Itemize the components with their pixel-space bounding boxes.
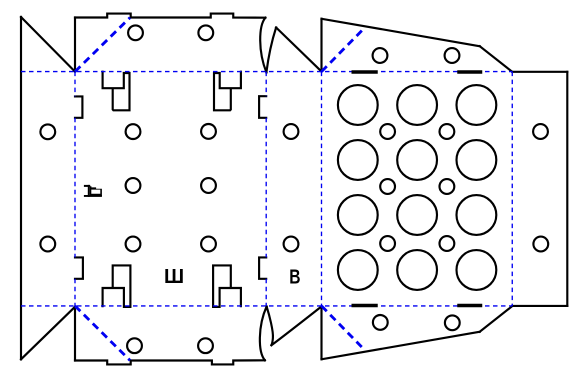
left flap outer edge [20,17,22,359]
bottom flap left edge [74,307,76,361]
right strip bottom edge [512,305,567,307]
bold fold diagonal top-left [75,18,130,72]
right panel left fold line [321,72,323,306]
crease tick top left [352,70,378,74]
top-right flap hole 2 [445,48,460,63]
top sliver cut line [266,28,276,73]
left flap top diagonal cut [21,17,75,72]
bottom-right flap corner cut [480,306,513,332]
bottom flap right curved cut [260,307,267,361]
bottom fold line [21,305,512,307]
big hole r2c3 [457,140,497,180]
top flap top edge with two tabs [75,14,265,18]
small hole r1c1 [380,124,395,139]
right edge notch bottom [259,257,266,278]
top flap hole 1 [128,25,143,40]
left flap bottom diagonal cut [21,307,75,360]
top-right flap hole 1 [373,48,388,63]
bottom sliver cut line [267,307,273,346]
left panel left fold line [74,72,76,306]
top-right flap left edge [320,19,322,72]
bold fold diagonal top-right [322,28,365,71]
bottom-right flap hole 1 [373,315,388,330]
big hole r2c2 [397,140,437,180]
top slot B of main panel [214,72,241,111]
top-right flap corner cut [480,46,513,72]
main panel hole r1c1 [126,124,141,139]
big hole r4c3 [457,250,497,290]
main panel hole r1c2 [201,124,216,139]
small hole r1c2 [440,124,455,139]
left flap hole 1 [40,124,55,139]
small hole r2c1 [380,179,395,194]
right edge notch top [259,96,266,118]
right strip top edge [512,71,567,73]
big hole r4c1 [338,250,378,290]
bottom flap hole 2 [198,338,213,353]
top cut from peak to right panel corner [276,28,321,72]
bottom-right flap hole 2 [445,315,460,330]
left edge notch top [75,96,82,117]
bottom cut from right panel corner to peak [271,307,321,346]
bottom tab B of main panel [213,265,241,307]
bottom-right flap left edge [320,307,322,360]
crease tick top right [457,70,482,74]
right strip hole 1 [533,124,548,139]
left panel right fold line [265,72,267,306]
bottom-right flap slanted bottom edge [322,332,480,360]
small hole r3c1 [380,236,395,251]
big hole r2c1 [338,140,378,180]
bold fold diagonal bottom-left [75,306,130,361]
main panel hole r3c1 [126,237,141,252]
svg-text:Ш: Ш [164,266,184,288]
crease tick bottom left [352,304,378,308]
big hole r1c3 [457,85,497,125]
big hole r3c2 [397,195,437,235]
bold fold diagonal bottom-right [322,306,365,349]
small hole r3c2 [440,236,455,251]
label D (rotated 90deg clockwise, drawn as paths) [84,185,102,197]
main panel hole r2c1 [126,178,141,193]
big hole r3c3 [457,195,497,235]
top-right flap slanted top edge [322,19,480,47]
main panel hole r3c2 [201,237,216,252]
top fold line [21,71,512,73]
bottom tab A of main panel [103,265,131,307]
big hole r3c1 [338,195,378,235]
bottom flap hole 1 [127,338,142,353]
top flap right curved cut [260,18,266,73]
big hole r1c2 [397,85,437,125]
big hole r1c1 [338,85,378,125]
right strip right edge [566,72,568,306]
crease tick bottom right [457,304,482,308]
left flap hole 2 [40,237,55,252]
top flap left edge [74,18,76,72]
left edge notch bottom [75,257,83,278]
right strip hole 2 [533,237,548,252]
big hole r4c2 [397,250,437,290]
top slot A of main panel [103,72,130,111]
middle strip hole 1 [284,124,299,139]
top flap hole 2 [198,25,213,40]
svg-text:В: В [289,266,300,288]
bottom flap bottom edge with two tabs [75,360,265,364]
small hole r2c2 [440,179,455,194]
right panel right fold line [511,72,513,306]
main panel hole r2c2 [201,178,216,193]
middle strip hole 2 [284,237,299,252]
